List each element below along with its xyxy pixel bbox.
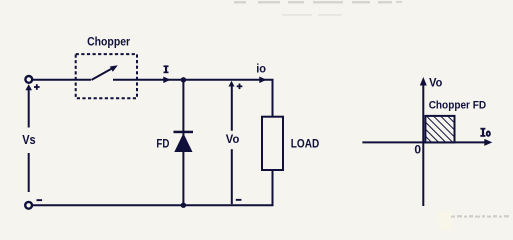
svg-text:Vo: Vo xyxy=(429,76,442,90)
svg-text:io: io xyxy=(256,64,266,76)
svg-text:Chopper: Chopper xyxy=(87,35,130,49)
svg-text:Chopper FD: Chopper FD xyxy=(429,99,487,111)
svg-text:Vo: Vo xyxy=(226,133,240,146)
svg-text:0: 0 xyxy=(414,142,421,156)
svg-text:Vs: Vs xyxy=(22,133,36,147)
svg-text:LOAD: LOAD xyxy=(291,137,320,151)
svg-text:FD: FD xyxy=(156,136,169,150)
